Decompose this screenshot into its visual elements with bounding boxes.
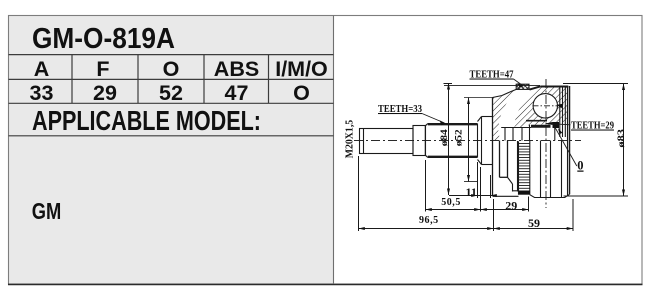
centerline axis [354,140,581,142]
96.5 / 59 dim line [359,228,574,230]
right face [569,86,571,194]
arrowheads [359,83,626,230]
hatched inner mass around ball (section), white track channel left of it [515,86,569,127]
svg-text:50,5: 50,5 [441,197,461,208]
svg-text:O: O [163,57,180,81]
svg-text:TEETH=33: TEETH=33 [378,104,422,115]
svg-text:F: F [96,57,109,81]
bore / inner race lines upper [501,127,531,129]
svg-text:GM-O-819A: GM-O-819A [32,23,175,55]
svg-text:ABS: ABS [214,57,259,81]
dia83 arrows [622,84,625,91]
upper outer profile [493,89,519,98]
11 dim line [449,195,494,197]
snap ring black square [553,122,560,128]
svg-text:47: 47 [225,81,249,105]
hatched bell outer wall band (upper-left, section) [493,89,519,141]
svg-text:52: 52 [159,81,183,105]
neck [413,126,425,156]
shaft: threaded stub [360,129,414,154]
table horizontal lines [9,54,334,56]
leaders [422,114,445,124]
svg-text:29: 29 [505,199,517,213]
svg-text:M20X1,5: M20X1,5 [344,119,356,158]
50.5 / 29 dim line [426,209,529,211]
spline section TEETH=33 [426,124,478,158]
svg-text:TEETH=29: TEETH=29 [571,121,614,132]
ball [533,94,557,118]
rib box on top (boot clamp) [516,84,529,89]
svg-text:TEETH=47: TEETH=47 [470,70,514,81]
dia52 dim line [468,98,470,182]
50.5/29 arrows [426,208,432,211]
svg-text:O: O [293,81,310,105]
svg-text:ø84: ø84 [439,129,449,147]
svg-text:11: 11 [466,185,477,199]
svg-text:ø52: ø52 [454,129,464,147]
table/drawing divider [333,16,335,285]
svg-text:APPLICABLE MODEL:: APPLICABLE MODEL: [32,105,261,136]
inner verticals right of ball [559,87,561,137]
svg-text:96,5: 96,5 [419,215,439,226]
11 arrows (outside) [471,194,477,197]
collar / boot groove [478,117,493,165]
96.5/59 arrows [359,227,365,230]
housing: bell face (left wall) [492,98,494,197]
bottom dims extension lines [359,156,574,231]
dia84 arrows [447,83,450,90]
leader arrows [440,120,446,125]
svg-text:GM: GM [32,198,62,224]
svg-text:33: 33 [30,81,54,105]
svg-text:59: 59 [528,216,540,230]
table panel background [9,16,334,285]
svg-text:0: 0 [577,159,583,173]
bottom frame dark line [8,283,643,285]
svg-text:ø83: ø83 [616,128,626,147]
svg-text:A: A [34,57,50,81]
lower exterior profile [493,195,519,197]
dia52 arrows [467,98,470,105]
svg-text:I/M/O: I/M/O [275,57,328,81]
table vertical lines [71,55,73,104]
dia83 dim line + ext [563,84,628,197]
ABS ring teeth stripes (lower) [519,144,530,189]
svg-text:29: 29 [93,81,117,105]
dia84 dim line [444,83,541,195]
CAD text labels [344,70,626,231]
